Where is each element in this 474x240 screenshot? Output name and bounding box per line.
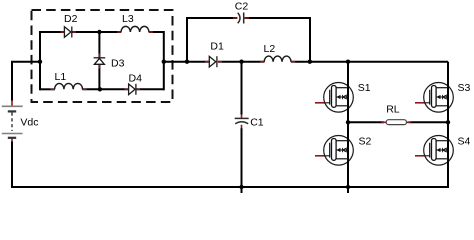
svg-text:L2: L2 <box>264 43 276 55</box>
svg-text:L3: L3 <box>122 13 134 25</box>
svg-text:C1: C1 <box>250 117 264 129</box>
svg-text:C2: C2 <box>235 1 249 13</box>
svg-text:D3: D3 <box>111 58 125 70</box>
svg-text:L1: L1 <box>55 71 67 83</box>
svg-text:S3: S3 <box>458 82 471 94</box>
svg-text:S2: S2 <box>359 135 372 147</box>
svg-text:D2: D2 <box>64 13 78 25</box>
svg-text:RL: RL <box>386 104 400 116</box>
svg-text:D1: D1 <box>210 41 224 53</box>
svg-text:S4: S4 <box>458 135 471 147</box>
svg-text:Vdc: Vdc <box>20 116 38 128</box>
svg-text:D4: D4 <box>129 72 143 84</box>
svg-text:S1: S1 <box>358 82 371 94</box>
